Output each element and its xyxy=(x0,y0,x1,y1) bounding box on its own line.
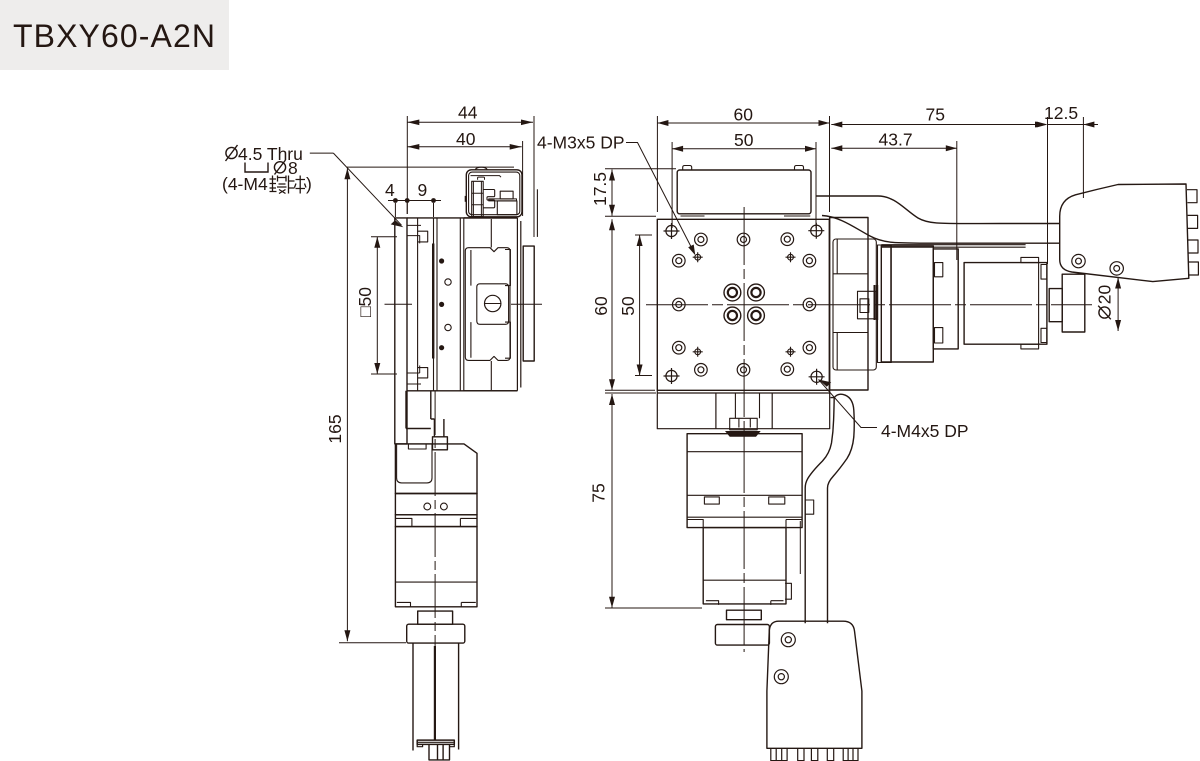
cable arm down xyxy=(828,394,855,623)
leader diameter4.5 diagonal xyxy=(333,153,401,225)
svg-text:20: 20 xyxy=(1095,285,1115,305)
bottom connector body xyxy=(767,621,862,748)
arm tab xyxy=(805,500,814,514)
dim 75 extension right xyxy=(1047,117,1049,264)
top bar bumps xyxy=(683,166,804,171)
bracket arm upper xyxy=(816,196,1060,224)
svg-text:75: 75 xyxy=(589,483,609,502)
centerline left view vertical xyxy=(434,391,436,742)
duct inner line xyxy=(799,521,801,574)
Z motor terminals xyxy=(704,497,784,504)
thin plate under arm xyxy=(881,245,1025,248)
bottom carriage band xyxy=(657,390,829,428)
carriage inner window xyxy=(477,284,509,325)
X shaft step xyxy=(1049,289,1062,322)
svg-text:(4-M4: (4-M4 xyxy=(222,174,268,194)
M3 small screws xyxy=(693,252,796,357)
svg-text:): ) xyxy=(306,174,312,194)
fake CJK glyph shuan xyxy=(289,176,307,194)
dim 165 extension bottom xyxy=(339,642,406,644)
leader 4-M3x5 xyxy=(626,143,694,252)
Y knob xyxy=(407,624,465,643)
Y motor bottom notches xyxy=(397,602,476,607)
diameter symbol 20 xyxy=(1098,306,1111,320)
hidden edge line right xyxy=(536,189,538,237)
saddle right of plate xyxy=(830,218,868,391)
svg-text:8: 8 xyxy=(288,158,298,178)
center four rings xyxy=(724,284,764,324)
dim 75 top line xyxy=(831,124,1046,126)
svg-text:17.5: 17.5 xyxy=(590,172,610,206)
clamp bottom square xyxy=(497,201,517,215)
saddle hub xyxy=(858,291,877,319)
svg-text:165: 165 xyxy=(325,414,345,443)
Z knob xyxy=(715,625,769,646)
svg-text:50: 50 xyxy=(734,130,754,150)
carriage bracket outline xyxy=(465,248,510,361)
svg-text:TBXY60-A2N: TBXY60-A2N xyxy=(13,18,216,54)
step notch top xyxy=(418,231,428,242)
X coupling cylinder xyxy=(1062,274,1085,332)
svg-text:44: 44 xyxy=(458,103,478,123)
Z motor bottom notches xyxy=(687,520,802,528)
svg-text:43.7: 43.7 xyxy=(879,130,913,150)
dim 44 extension right xyxy=(533,116,535,237)
dim 50 left line xyxy=(639,235,641,376)
dim 43.7 line xyxy=(831,147,957,149)
connector housing right xyxy=(1060,184,1189,282)
dim 60 top extensions xyxy=(656,116,658,212)
dim diameter20 line xyxy=(1117,278,1119,332)
clamp bump xyxy=(476,167,488,169)
svg-text:75: 75 xyxy=(926,105,945,125)
base plate edge-on xyxy=(395,218,407,444)
right block xyxy=(517,218,520,391)
title block background xyxy=(0,0,229,70)
rail bold face xyxy=(432,244,434,359)
leader diameter4.5 horizontal xyxy=(310,152,334,154)
rail dots filled xyxy=(439,258,444,263)
recess notch xyxy=(408,444,426,449)
dim 44 extension left xyxy=(406,116,408,214)
extension line top of 165 xyxy=(347,166,514,168)
leader 4-M4x5 xyxy=(819,380,878,428)
coupling block xyxy=(433,437,448,450)
centerline left view horizontal xyxy=(385,303,413,305)
clamp left dark tab xyxy=(465,196,467,202)
lower shaft xyxy=(431,419,444,437)
clamp bracket inner frame xyxy=(469,172,520,215)
main plate xyxy=(657,219,829,390)
clamp inner top line xyxy=(471,176,502,178)
clamp latch tab xyxy=(478,177,485,180)
probe side wings xyxy=(417,744,454,746)
centerline right view horizontal xyxy=(646,304,1092,306)
dim 44 line xyxy=(407,121,533,123)
svg-text:40: 40 xyxy=(456,129,476,149)
probe cylinder xyxy=(413,643,459,750)
dim 50 top extensions xyxy=(671,142,673,228)
corner step lines xyxy=(407,236,420,373)
top plate edge-on xyxy=(523,246,534,361)
dim 43.7 extension right xyxy=(956,141,958,260)
dim 12.5 extension right xyxy=(1082,117,1084,198)
Y motor body xyxy=(395,527,477,607)
label recess xyxy=(397,444,432,483)
step notch bottom xyxy=(418,368,428,378)
connector screws xyxy=(781,633,795,647)
saddle inner xyxy=(833,239,876,370)
small ticks near top-left xyxy=(407,225,421,384)
corner screws M4 xyxy=(664,223,825,385)
dim 60 top line xyxy=(657,122,829,124)
Y motor flange band xyxy=(395,515,477,527)
svg-text:50: 50 xyxy=(618,296,638,316)
svg-text:12.5: 12.5 xyxy=(1044,103,1078,123)
svg-text:4: 4 xyxy=(385,180,395,200)
Y motor top block xyxy=(395,444,477,494)
dim square50 line xyxy=(376,237,378,374)
rail column verticals xyxy=(434,218,464,391)
probe center screw xyxy=(434,646,436,740)
dim 60 left line xyxy=(611,219,613,390)
dim 4-9 line with dots xyxy=(388,200,441,202)
dim 17.5 line xyxy=(611,170,613,216)
Z shaft xyxy=(727,610,762,620)
carriage plate vertical xyxy=(490,219,492,390)
clamp E shape xyxy=(483,190,495,208)
dim 60 left extension bottom xyxy=(605,389,655,391)
carriage side tabs xyxy=(471,250,511,359)
svg-text:□50: □50 xyxy=(355,287,375,317)
text dia4.5 Thru xyxy=(238,144,303,178)
connector teeth xyxy=(771,748,858,760)
diameter symbol 4.5 xyxy=(226,145,286,175)
centerline right view vertical xyxy=(743,207,745,652)
dim 50 left extensions xyxy=(635,234,652,236)
dim 40 line xyxy=(407,146,521,148)
X motor body xyxy=(964,263,1047,345)
Y motor band with circles xyxy=(395,494,477,515)
housing teeth xyxy=(1187,190,1198,275)
clamp small top rect xyxy=(500,191,513,199)
dim 75 left extensions xyxy=(605,392,656,394)
rail dots open xyxy=(445,279,451,285)
svg-text:4-M3x5 DP: 4-M3x5 DP xyxy=(537,133,625,153)
svg-text:60: 60 xyxy=(591,296,611,316)
dim 40 extension right xyxy=(522,141,524,216)
dim 165 line xyxy=(346,168,348,641)
carriage screw circle xyxy=(485,295,501,311)
fake CJK glyph luo xyxy=(270,176,287,194)
clamp long strip xyxy=(489,199,517,201)
probe flange xyxy=(417,740,454,744)
svg-text:9: 9 xyxy=(418,180,428,200)
dim 17.5 extensions xyxy=(605,168,676,170)
dim 75 left line xyxy=(611,394,613,608)
intermediate column xyxy=(407,218,517,391)
central screw xyxy=(730,393,760,430)
Z motor gearbox xyxy=(687,434,802,528)
motor plate narrow xyxy=(878,245,892,363)
clamp bracket outer frame xyxy=(466,170,522,217)
top row holes xyxy=(673,233,816,376)
Y shaft block xyxy=(418,611,453,624)
dim 50 top line xyxy=(672,148,816,150)
X gear section xyxy=(933,249,958,349)
dim 12.5 line and arrows xyxy=(1048,124,1099,126)
X motor mount xyxy=(881,246,933,362)
screw slot xyxy=(484,303,501,305)
top bar feet xyxy=(681,215,811,217)
clamp ladder column xyxy=(472,181,484,216)
counterbore symbol xyxy=(245,163,268,173)
probe tip block xyxy=(429,744,450,760)
T nut bold xyxy=(725,431,761,437)
svg-text:60: 60 xyxy=(734,105,754,125)
lower bracket column xyxy=(406,391,431,429)
housing screws xyxy=(1072,254,1085,267)
Z motor body xyxy=(703,528,786,604)
top bar xyxy=(677,170,811,214)
svg-text:4-M4x5 DP: 4-M4x5 DP xyxy=(881,421,969,441)
